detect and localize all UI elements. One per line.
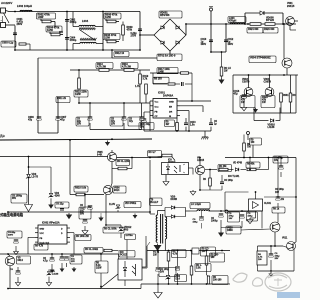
svg-text:R0 CL-100k: R0 CL-100k xyxy=(104,228,117,230)
svg-text:AC220V: AC220V xyxy=(1,1,12,5)
wire bottom rail xyxy=(14,49,141,51)
wire out row xyxy=(205,169,217,171)
wire top rail xyxy=(9,11,140,13)
node dot topA xyxy=(14,11,16,13)
capacitor C007 xyxy=(56,116,67,122)
ground opto1 xyxy=(163,180,169,185)
ic IC002 xyxy=(35,225,70,244)
svg-text:3.7k: 3.7k xyxy=(143,78,148,81)
resistor R002 xyxy=(37,13,56,27)
wire t002 sec lead xyxy=(164,239,166,251)
resistor R0215 xyxy=(219,51,232,84)
capacitor C023 xyxy=(156,250,161,284)
capacitor C009 xyxy=(76,102,92,129)
optocoupler IC003 xyxy=(162,163,189,175)
svg-text:Drain Snk: Drain Snk xyxy=(40,241,51,244)
resistor R040 xyxy=(34,244,48,250)
wire bus1 xyxy=(0,139,152,140)
svg-text:VD0 P6KE: VD0 P6KE xyxy=(125,203,137,205)
ground sec big xyxy=(154,284,162,298)
node t75 label xyxy=(153,251,160,257)
inductor L002 xyxy=(17,4,32,12)
capacitor C020 xyxy=(273,156,288,177)
svg-text:1/2W: 1/2W xyxy=(104,37,110,40)
zener VD016 xyxy=(269,246,280,271)
wire bottom bus xyxy=(7,284,141,289)
ground c017 xyxy=(82,229,88,234)
transistor V009 xyxy=(5,212,30,289)
svg-text:C0 22μ: C0 22μ xyxy=(56,203,64,205)
wire v006 down xyxy=(98,195,115,226)
svg-text:BALLP: BALLP xyxy=(151,201,159,204)
svg-text:4V3: 4V3 xyxy=(124,229,129,232)
svg-text:L0 1.5μH: L0 1.5μH xyxy=(191,203,201,206)
wire opto1 down xyxy=(165,175,167,181)
svg-text:4.7k: 4.7k xyxy=(173,252,178,255)
capacitor C010 xyxy=(201,24,214,52)
svg-text:1/2W: 1/2W xyxy=(38,16,44,19)
node bus label xyxy=(0,134,5,138)
svg-text:C3979: C3979 xyxy=(242,81,250,84)
resistor R018 xyxy=(69,139,104,196)
svg-text:25V: 25V xyxy=(275,258,279,260)
capacitor C017 xyxy=(79,194,91,229)
svg-text:1.5n: 1.5n xyxy=(190,125,195,127)
svg-text:275V: 275V xyxy=(131,35,137,38)
svg-text:凡B: 凡B xyxy=(0,134,5,138)
svg-text:1/2W: 1/2W xyxy=(47,29,53,32)
capacitor C002 xyxy=(65,19,77,25)
ground pair top xyxy=(0,0,1,1)
wire opto2 leads xyxy=(100,236,146,289)
svg-text:16V: 16V xyxy=(160,271,165,273)
resistor R044 xyxy=(257,246,267,271)
resistor R009 xyxy=(122,22,133,42)
capacitor C012 xyxy=(224,23,234,52)
diode VD010 xyxy=(254,108,280,130)
resistor R006 xyxy=(104,13,121,23)
optocoupler IC005 xyxy=(118,259,142,280)
resistor R043 xyxy=(95,254,108,287)
wire c202 bottom xyxy=(221,227,242,229)
svg-text:4.7k 2W: 4.7k 2W xyxy=(122,66,132,69)
svg-text:250V: 250V xyxy=(17,23,23,26)
inductor L006 xyxy=(190,203,262,229)
resistor R031 xyxy=(280,75,290,113)
ic IC002 label xyxy=(42,222,60,225)
capacitor C020b xyxy=(193,211,204,229)
op-amp IC005 label xyxy=(119,251,135,258)
transformer L004 choke xyxy=(73,12,103,51)
svg-text:R024 600: R024 600 xyxy=(248,28,259,31)
wire v007 emitter xyxy=(200,173,208,190)
capacitor C021 xyxy=(211,211,223,228)
wire caps bottom xyxy=(90,129,142,131)
svg-text:C0 100μ: C0 100μ xyxy=(275,189,284,191)
svg-text:L002 100μH: L002 100μH xyxy=(17,4,32,8)
diode VD019 label xyxy=(171,196,178,202)
svg-text:BYV26: BYV26 xyxy=(266,19,275,22)
svg-text:RBV406: RBV406 xyxy=(160,14,170,17)
resistor R022 xyxy=(135,80,147,103)
svg-text:L2-Y5: L2-Y5 xyxy=(32,176,39,179)
wire mid h1 xyxy=(79,102,150,104)
capacitor C024 xyxy=(159,251,180,285)
capacitor Cx xyxy=(192,247,216,256)
wire v011 col xyxy=(294,242,296,271)
zener VD014 xyxy=(166,275,187,282)
zener VD018 xyxy=(0,0,1,1)
capacitor C006 xyxy=(28,116,41,122)
wire sb rail xyxy=(0,253,119,261)
svg-text:1/2W: 1/2W xyxy=(96,267,102,269)
transformer T002 core xyxy=(161,214,163,244)
ground ic big xyxy=(201,134,208,139)
wire B+ rail xyxy=(186,23,296,25)
transistor V005 xyxy=(97,144,117,162)
wire ic2 pins xyxy=(28,233,74,254)
wire v007 bottom xyxy=(190,188,222,195)
thermistor RT01 xyxy=(111,49,182,60)
zener VD012 xyxy=(105,224,132,238)
wire reg top xyxy=(281,199,284,201)
svg-text:D880: D880 xyxy=(227,229,233,232)
wire out rail xyxy=(225,157,296,159)
inductor L003 xyxy=(228,17,246,25)
svg-text:100-180: 100-180 xyxy=(213,279,222,281)
resistor R036 xyxy=(243,135,252,159)
svg-text:RT01 5A 10D-9: RT01 5A 10D-9 xyxy=(158,55,176,58)
svg-text:2SK15: 2SK15 xyxy=(287,5,295,8)
svg-text:2.5T5A: 2.5T5A xyxy=(126,234,134,237)
zener VD009 xyxy=(49,193,61,198)
svg-text:2kV: 2kV xyxy=(59,32,64,34)
svg-text:R031: R031 xyxy=(283,95,289,97)
svg-text:L4148: L4148 xyxy=(52,273,59,276)
wire ic bottom xyxy=(144,131,211,134)
svg-text:400V: 400V xyxy=(8,234,14,237)
svg-text:35V: 35V xyxy=(12,198,17,200)
svg-text:25V: 25V xyxy=(71,261,75,263)
wire reg mid xyxy=(258,245,288,247)
svg-text:R0 CL-10kΩ: R0 CL-10kΩ xyxy=(85,249,98,251)
wire bridge left xyxy=(139,34,154,36)
svg-text:PC817: PC817 xyxy=(120,254,128,256)
capacitor C014 xyxy=(110,102,126,129)
capacitor C031 xyxy=(139,112,154,131)
capacitor C014b xyxy=(209,118,218,131)
transistor V010 xyxy=(226,218,280,234)
diode VD011 xyxy=(228,162,246,172)
transformer T002 secondary xyxy=(165,217,166,239)
ground t002 main xyxy=(154,244,162,252)
ground clamp xyxy=(25,205,33,212)
svg-text:16V: 16V xyxy=(275,192,280,194)
resistor R016 xyxy=(121,63,138,72)
ground reg xyxy=(268,271,273,277)
svg-text:C3979: C3979 xyxy=(264,81,272,84)
resistor R028 xyxy=(240,96,255,108)
resistor R019 xyxy=(139,70,149,103)
wire v005 emitter xyxy=(111,162,113,184)
svg-text:3.3k: 3.3k xyxy=(196,267,201,269)
svg-text:IC0 TL431: IC0 TL431 xyxy=(228,175,240,178)
svg-text:L4148: L4148 xyxy=(268,126,275,129)
node reg label xyxy=(272,207,285,218)
svg-text:GND: GND xyxy=(40,229,45,231)
capacitor C026 xyxy=(43,254,54,273)
resistor R032b xyxy=(289,75,296,113)
wire t002 top lead xyxy=(158,211,166,216)
capacitor C013 xyxy=(184,118,196,131)
svg-text:EN: EN xyxy=(169,107,172,109)
wire standby rail xyxy=(233,74,298,76)
svg-text:R012 10: R012 10 xyxy=(115,52,125,55)
capacitor C027 xyxy=(60,254,82,272)
svg-text:4.7μ: 4.7μ xyxy=(43,260,48,263)
svg-text:9014: 9014 xyxy=(114,189,120,192)
wire x51 branch xyxy=(28,166,51,193)
capacitor C004 xyxy=(65,37,77,43)
transistor V002 xyxy=(242,75,253,96)
wire primary top xyxy=(150,160,155,214)
capacitor C005 xyxy=(131,29,143,38)
zener VD013 xyxy=(116,202,141,213)
svg-text:VD 4748: VD 4748 xyxy=(233,162,243,165)
wire x67 branch xyxy=(66,11,68,51)
svg-text:400V: 400V xyxy=(228,43,234,46)
ground clamp3 xyxy=(66,212,72,219)
capacitor C019 xyxy=(264,158,297,208)
svg-text:R0 103: R0 103 xyxy=(154,78,162,81)
resistor R029 xyxy=(261,96,275,108)
zener VD015 xyxy=(124,240,137,275)
svg-text:25V: 25V xyxy=(77,123,82,125)
node watermark stamp xyxy=(233,273,291,291)
svg-text:R0 43k: R0 43k xyxy=(247,162,255,165)
svg-text:50V: 50V xyxy=(80,213,85,215)
transistor V006 xyxy=(103,184,126,195)
svg-text:9-4K: 9-4K xyxy=(97,154,102,157)
wire out v1 xyxy=(295,158,297,243)
transistor V011 xyxy=(282,238,296,251)
svg-text:47μ: 47μ xyxy=(28,119,33,122)
resistor R025 xyxy=(148,151,176,161)
op-amp IC003 label xyxy=(168,159,176,165)
transistor V001 xyxy=(286,2,298,30)
capacitor C015 xyxy=(128,103,144,130)
transformer T002 winding xyxy=(156,215,157,243)
wire sb left vert xyxy=(0,0,1,1)
resistor R042 xyxy=(84,248,119,255)
wire v005 right xyxy=(117,157,163,159)
svg-text:DR: DR xyxy=(169,112,173,114)
connector XP plug xyxy=(1,8,16,28)
resistor R011 xyxy=(56,97,70,103)
mosfet V004 xyxy=(282,23,292,75)
wire bus2 xyxy=(0,156,108,158)
resistor R013 xyxy=(96,63,113,72)
svg-text:470μH: 470μH xyxy=(229,20,236,23)
node c021 label xyxy=(11,194,27,203)
wire bridge right xyxy=(185,23,187,35)
svg-text:9014: 9014 xyxy=(18,259,24,262)
op-amp IC001 xyxy=(150,99,180,119)
svg-text:R0 1k: R0 1k xyxy=(273,208,280,210)
ground standby xyxy=(253,108,258,113)
wire x28 drop xyxy=(28,156,30,205)
ground clamp2 xyxy=(133,212,138,219)
wire x140 branch xyxy=(139,12,141,51)
svg-text:R0 4.7: R0 4.7 xyxy=(149,151,157,154)
resistor R023 xyxy=(165,118,179,132)
wire clamp rail xyxy=(7,211,151,213)
resistor R038 xyxy=(190,251,211,285)
resistor R034 xyxy=(246,158,269,171)
svg-text:1/4W: 1/4W xyxy=(158,71,164,74)
capacitor C032 xyxy=(80,205,92,212)
wire caps to bus xyxy=(114,130,116,140)
resistor R012 xyxy=(114,52,129,57)
svg-text:1/2W: 1/2W xyxy=(105,16,111,19)
capacitor C016 xyxy=(234,75,247,111)
svg-text:A1015: A1015 xyxy=(197,159,205,162)
svg-text:DL4: DL4 xyxy=(176,277,181,280)
svg-text:4700p: 4700p xyxy=(70,39,77,42)
wire ic left pins xyxy=(150,101,153,131)
svg-text:100μ: 100μ xyxy=(248,216,254,218)
resistor R008 xyxy=(103,34,120,43)
node AC220V label xyxy=(1,1,12,5)
diode VD008 xyxy=(244,11,284,25)
svg-text:47μ: 47μ xyxy=(234,93,239,96)
terminal standby out xyxy=(247,121,262,158)
svg-text:R0 CL-120k: R0 CL-120k xyxy=(117,161,130,163)
svg-text:400V: 400V xyxy=(201,43,207,46)
svg-text:1/2W: 1/2W xyxy=(75,93,81,96)
zener VD017 xyxy=(46,269,59,285)
resistor R004 xyxy=(46,26,63,36)
svg-text:VCC: VCC xyxy=(40,233,45,235)
capacitor C022 xyxy=(228,211,258,228)
ground x51 xyxy=(48,198,54,209)
wire left loop xyxy=(38,58,112,133)
svg-text:R0 4.7k: R0 4.7k xyxy=(35,244,44,247)
resistor R033 xyxy=(167,250,186,285)
transistor V003 xyxy=(264,75,274,96)
resistor R037 xyxy=(205,251,228,285)
svg-text:11.9V: 11.9V xyxy=(109,203,116,206)
wire ic right pins xyxy=(180,52,211,132)
svg-text:C003 0.1μ: C003 0.1μ xyxy=(2,41,14,44)
svg-text:DK0B: DK0B xyxy=(171,198,178,201)
svg-text:25V: 25V xyxy=(111,123,116,125)
node caption xyxy=(0,212,24,217)
svg-text:R0 100k 2W: R0 100k 2W xyxy=(76,236,90,238)
capacitor C033 xyxy=(7,231,22,255)
svg-text:1.7k: 1.7k xyxy=(135,85,140,88)
svg-text:4148: 4148 xyxy=(55,195,61,198)
svg-text:47μ: 47μ xyxy=(129,120,134,123)
wire tl431 wires xyxy=(225,191,256,224)
wire string xyxy=(70,69,150,71)
resistor row boxes xyxy=(75,227,136,241)
resistor R014 xyxy=(153,77,192,86)
diode VD019 pair xyxy=(165,206,190,218)
capacitor C003 xyxy=(1,41,30,50)
svg-text:DAP08A: DAP08A xyxy=(163,94,173,98)
wire sec gnd bus xyxy=(141,283,230,285)
wire opto1 right xyxy=(189,168,194,175)
svg-text:R011 2k: R011 2k xyxy=(57,97,67,100)
svg-text:CP: CP xyxy=(155,116,159,118)
shunt TL431 xyxy=(228,175,272,211)
transformer T002 label xyxy=(150,198,163,206)
svg-text:1N: 1N xyxy=(281,199,284,201)
wire cap join xyxy=(210,51,226,53)
svg-text:V011: V011 xyxy=(282,238,288,240)
wire standby left xyxy=(233,75,296,113)
zener VD007 xyxy=(26,173,39,179)
capacitor C030 xyxy=(55,202,69,210)
svg-text:4.7k 2W: 4.7k 2W xyxy=(97,66,107,69)
node 2kV label xyxy=(59,32,64,34)
mosfet V004 label xyxy=(249,56,276,63)
op-amp IC001 label xyxy=(158,91,173,98)
resistor R015 xyxy=(74,70,88,104)
svg-text:1000μ: 1000μ xyxy=(211,221,218,223)
svg-text:16V: 16V xyxy=(229,218,233,220)
ground bus1 tap xyxy=(105,141,110,146)
ground l006 xyxy=(176,228,224,238)
svg-text:47μ: 47μ xyxy=(61,119,66,122)
resistor R026 xyxy=(263,23,278,33)
capacitor C028 xyxy=(10,267,21,286)
svg-text:R026 600: R026 600 xyxy=(264,28,275,31)
svg-text:V004 STP4NK60Z: V004 STP4NK60Z xyxy=(250,57,271,60)
transistor V007 xyxy=(193,157,205,175)
svg-text:FB: FB xyxy=(155,112,158,114)
svg-text:FB: FB xyxy=(40,238,43,240)
diode bridge VD001 label xyxy=(159,11,182,18)
svg-text:IC002 VIPer22A: IC002 VIPer22A xyxy=(42,222,60,225)
capacitor C001 xyxy=(13,18,23,50)
resistor R017 xyxy=(150,68,193,102)
node blue watermark xyxy=(277,292,300,298)
diode bridge VD001 xyxy=(154,19,186,51)
svg-text:GND: GND xyxy=(169,102,174,104)
svg-text:R018 5.6k: R018 5.6k xyxy=(75,186,87,189)
wire v005 collector xyxy=(111,138,113,144)
wire x103 branch xyxy=(102,11,104,51)
svg-text:100μ: 100μ xyxy=(193,222,199,224)
svg-text:式稳压电源电路: 式稳压电源电路 xyxy=(0,212,24,217)
capacitor C018 xyxy=(220,175,233,190)
wire v010 emitter xyxy=(274,232,276,247)
svg-text:L004: L004 xyxy=(82,19,89,23)
svg-text:C0 100μ: C0 100μ xyxy=(224,180,233,182)
resistor R020 xyxy=(112,158,132,170)
svg-text:CL431: CL431 xyxy=(264,202,272,205)
resistor R024 xyxy=(247,23,263,33)
wire reg bottom xyxy=(258,270,295,272)
wire primary bot xyxy=(142,242,150,268)
terminal 300V xyxy=(209,7,213,25)
wire sec rail xyxy=(147,250,230,252)
resistor R033a xyxy=(218,165,232,172)
resistor R027 xyxy=(203,169,211,190)
